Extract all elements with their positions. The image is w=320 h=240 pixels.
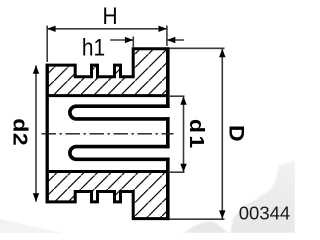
arrow h1 right (outside, pointing left) xyxy=(167,37,175,43)
dim d1 extension bottom xyxy=(169,171,185,173)
watermark swoosh bottom-right xyxy=(231,167,296,233)
dim d1 extension top xyxy=(169,95,185,97)
svg-text:00344: 00344 xyxy=(239,203,290,224)
arrow D top xyxy=(219,49,225,57)
arrow d2 bottom xyxy=(33,193,39,201)
right face lower segment xyxy=(166,158,170,220)
arrow H left xyxy=(47,26,55,32)
dim h1 tail right xyxy=(167,39,184,41)
right face tongue segment xyxy=(166,117,170,148)
arrow d2 top xyxy=(33,65,39,73)
upper slot U xyxy=(70,106,170,119)
dim d1 line xyxy=(183,96,185,172)
dim d2 line xyxy=(35,65,37,201)
arrow H right xyxy=(159,26,167,32)
arrow d1 top xyxy=(180,96,186,104)
dim H extension line right xyxy=(166,26,168,47)
svg-text:H: H xyxy=(102,3,117,30)
body left edge xyxy=(46,64,49,203)
svg-text:d1: d1 xyxy=(185,119,209,151)
watermark wedge bottom-left xyxy=(0,219,62,233)
watermark hill bottom-middle xyxy=(184,221,229,233)
dim D extension bottom xyxy=(170,218,225,220)
arrow D bottom xyxy=(219,210,225,218)
dim D extension top xyxy=(170,47,225,49)
lower slot U xyxy=(70,147,170,160)
dim h1 tail left xyxy=(110,39,133,41)
svg-text:h1: h1 xyxy=(82,34,105,61)
centerline xyxy=(42,133,174,135)
arrow h1 left (outside, pointing right) xyxy=(125,37,133,43)
dim H extension line left xyxy=(46,26,48,63)
watermark wedge top-right xyxy=(274,161,296,191)
right face upper segment xyxy=(166,47,170,107)
hatched section: top flange (castellated) xyxy=(47,49,168,96)
dim H line xyxy=(47,28,167,30)
dim D line xyxy=(221,49,223,219)
hatched section: bottom flange (castellated) xyxy=(47,172,168,219)
svg-text:d2: d2 xyxy=(9,118,33,146)
dim h1 extension line xyxy=(132,37,134,49)
arrow d1 bottom xyxy=(180,164,186,172)
svg-text:D: D xyxy=(225,125,249,142)
